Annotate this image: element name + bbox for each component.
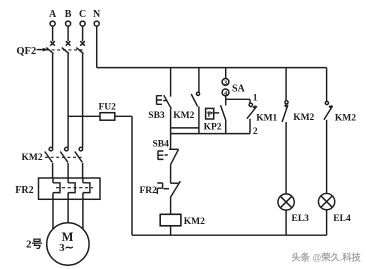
svg-text:N: N (93, 9, 101, 20)
svg-text:EL4: EL4 (333, 214, 351, 224)
svg-text:SB3: SB3 (148, 111, 165, 121)
svg-text:2: 2 (253, 127, 258, 137)
svg-text:3∼: 3∼ (59, 242, 74, 254)
svg-text:KM1: KM1 (256, 113, 277, 123)
svg-text:KM2: KM2 (22, 153, 43, 163)
svg-text:2号: 2号 (26, 238, 43, 251)
svg-text:A: A (49, 9, 57, 20)
svg-text:EL3: EL3 (292, 214, 310, 224)
svg-text:FR2: FR2 (15, 185, 33, 196)
svg-text:头条 @荣久.科技: 头条 @荣久.科技 (292, 252, 362, 263)
svg-text:QF2: QF2 (16, 46, 36, 57)
svg-text:KP2: KP2 (204, 122, 222, 132)
svg-text:FU2: FU2 (99, 103, 117, 113)
svg-text:C: C (79, 9, 86, 20)
svg-text:KM2: KM2 (335, 113, 356, 123)
svg-text:KM2: KM2 (173, 111, 194, 121)
svg-text:SB4: SB4 (153, 140, 170, 150)
svg-text:B: B (65, 9, 72, 20)
svg-text:1: 1 (253, 93, 258, 103)
svg-text:FR2: FR2 (140, 186, 158, 196)
svg-text:P: P (207, 110, 212, 119)
svg-text:SA: SA (232, 83, 246, 94)
svg-text:KM2: KM2 (293, 113, 314, 123)
svg-text:KM2: KM2 (184, 217, 205, 227)
svg-text:3: 3 (224, 79, 227, 86)
